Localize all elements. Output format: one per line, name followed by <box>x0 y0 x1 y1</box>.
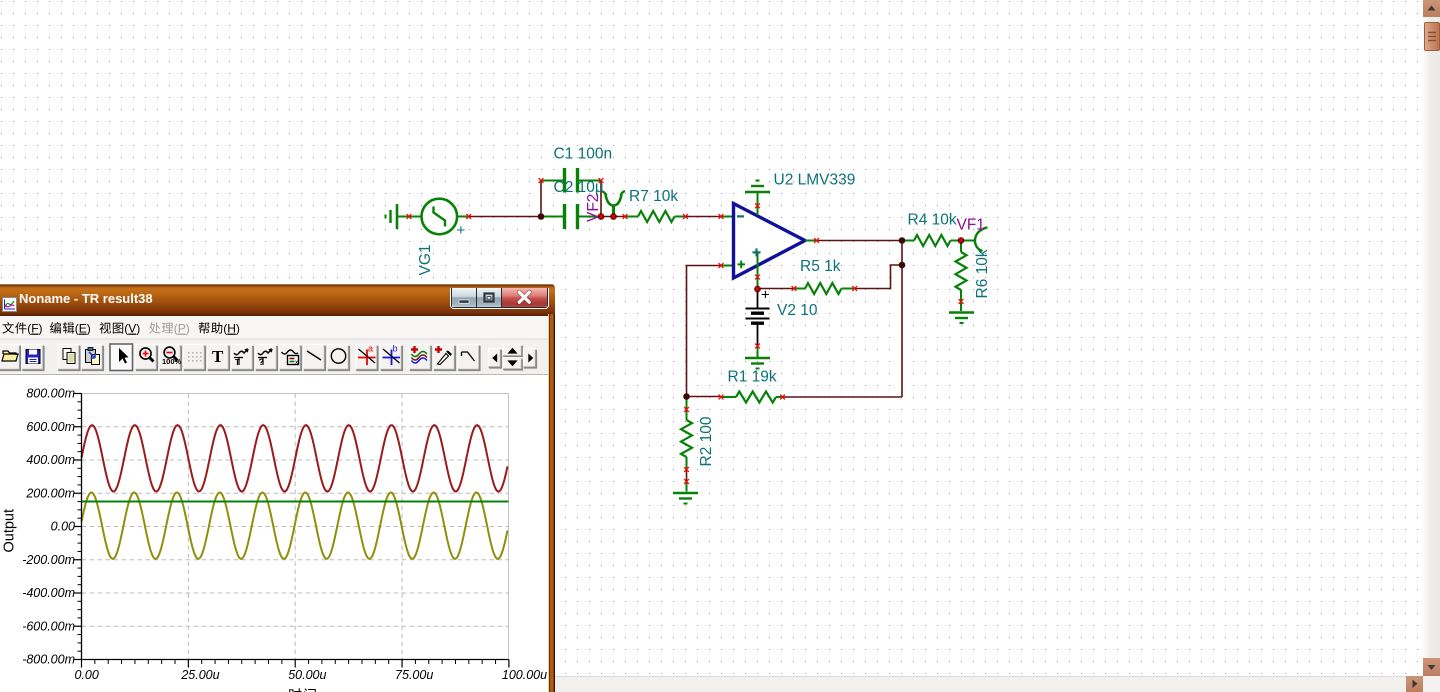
svg-text:b: b <box>393 344 398 354</box>
svg-text:100%: 100% <box>162 357 182 366</box>
svg-text:(V): (V) <box>124 322 140 336</box>
svg-text:+: + <box>457 222 466 239</box>
svg-text:VF2: VF2 <box>585 194 602 222</box>
svg-text:?: ? <box>259 357 265 367</box>
svg-text:100.00u: 100.00u <box>502 668 547 682</box>
svg-text:T: T <box>212 347 224 366</box>
svg-text:a: a <box>368 344 373 354</box>
svg-text:-400.00m: -400.00m <box>22 586 75 600</box>
svg-text:-800.00m: -800.00m <box>22 653 75 667</box>
svg-text:(H): (H) <box>223 322 240 336</box>
svg-text:R2 100: R2 100 <box>698 416 715 466</box>
svg-text:75.00u: 75.00u <box>395 668 433 682</box>
svg-text:800.00m: 800.00m <box>26 387 75 401</box>
svg-text:VF1: VF1 <box>957 217 985 234</box>
svg-text:VG1: VG1 <box>417 244 434 275</box>
svg-text:R7 10k: R7 10k <box>629 188 678 205</box>
svg-text:R5 1k: R5 1k <box>800 258 841 275</box>
svg-text:(P): (P) <box>174 322 190 336</box>
svg-text:C1 100n: C1 100n <box>554 146 613 163</box>
svg-text:600.00m: 600.00m <box>26 420 75 434</box>
svg-text:0.00: 0.00 <box>75 668 99 682</box>
svg-text:-600.00m: -600.00m <box>22 619 75 633</box>
svg-text:0.00: 0.00 <box>51 520 75 534</box>
svg-text:Output: Output <box>2 509 18 553</box>
svg-text:R4 10k: R4 10k <box>908 212 957 229</box>
svg-text:V2 10: V2 10 <box>777 302 818 319</box>
svg-text:R1 19k: R1 19k <box>728 369 777 386</box>
svg-text:200.00m: 200.00m <box>25 486 75 500</box>
svg-text:U2 LMV339: U2 LMV339 <box>774 172 856 189</box>
svg-text:T: T <box>235 358 240 367</box>
svg-text:C2 10µ: C2 10µ <box>554 179 604 196</box>
svg-text:-200.00m: -200.00m <box>22 553 75 567</box>
svg-text:400.00m: 400.00m <box>26 453 75 467</box>
svg-text:25.00u: 25.00u <box>180 668 219 682</box>
svg-text:+: + <box>761 287 770 304</box>
svg-text:(E): (E) <box>75 322 91 336</box>
svg-text:(F): (F) <box>27 322 42 336</box>
svg-text:50.00u: 50.00u <box>288 668 326 682</box>
svg-text:R6 10k: R6 10k <box>974 249 991 298</box>
